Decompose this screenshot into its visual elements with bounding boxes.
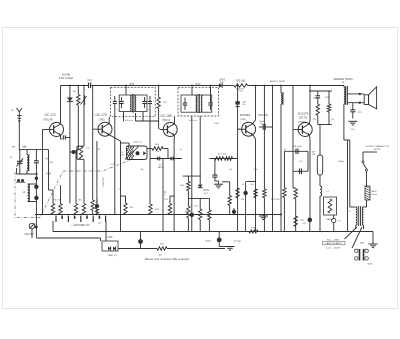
wire TR5 collector up bbox=[308, 86, 311, 124]
label near R26 val bbox=[331, 119, 334, 121]
svg-text:4·7kΩ: 4·7kΩ bbox=[237, 91, 243, 93]
label tag bbox=[360, 242, 365, 245]
svg-text:1k: 1k bbox=[242, 184, 244, 186]
oscillator coil L2 bbox=[28, 184, 30, 202]
diode D6 bbox=[171, 156, 174, 160]
label TR1 OC170 bbox=[45, 113, 56, 117]
wire v drop x78.3 upper bbox=[77, 86, 79, 95]
battery bracket right bbox=[105, 221, 107, 232]
resistor R19 on base line bbox=[236, 188, 239, 198]
label AGC rotated bbox=[103, 177, 105, 187]
svg-text:TAG: TAG bbox=[360, 242, 365, 245]
wire y171 bar bbox=[293, 170, 308, 172]
ground below C15 bbox=[214, 184, 223, 188]
wire x272.5 vertical bbox=[272, 86, 274, 232]
resistor R25 vertical bbox=[316, 91, 321, 115]
resistor R10 vertical bbox=[149, 204, 152, 215]
resistor R7 vertical bbox=[95, 206, 98, 215]
resistor R30 in loop bbox=[79, 146, 90, 159]
svg-text:6·8Ω: 6·8Ω bbox=[251, 228, 256, 230]
label R17 bbox=[218, 154, 227, 156]
svg-text:Case — BLUE: Case — BLUE bbox=[326, 247, 341, 249]
junction blob tuned bottom bbox=[35, 177, 38, 180]
resistor R14 vertical bbox=[187, 176, 190, 198]
capacitor C15 bbox=[212, 175, 217, 181]
wire jack top bbox=[366, 171, 368, 186]
pin diagram circles bbox=[355, 249, 369, 260]
ground below C23 bbox=[348, 121, 357, 125]
driver transformer core bbox=[359, 206, 361, 226]
label aerial coil top bbox=[23, 147, 27, 149]
wire drv bottoms bbox=[356, 225, 364, 229]
diode D5 bbox=[157, 156, 160, 160]
IFT2 primary winding bbox=[196, 96, 197, 113]
label near R27 bbox=[301, 220, 306, 222]
wire TR1 collector up bbox=[60, 86, 62, 124]
label R12 value bbox=[236, 80, 246, 83]
osc can windings bbox=[127, 147, 147, 160]
svg-text:10µF: 10µF bbox=[214, 123, 219, 125]
label IFT1 cap values bbox=[116, 110, 150, 112]
svg-text:OUTPUT TRANSISTOR: OUTPUT TRANSISTOR bbox=[365, 145, 389, 148]
wire x349.5 vertical bbox=[349, 140, 351, 207]
label near C8b bbox=[119, 189, 122, 191]
svg-text:5·6k: 5·6k bbox=[254, 169, 258, 171]
coil arcs beside R2 bbox=[81, 96, 87, 106]
pin diagram bars bbox=[360, 249, 364, 261]
resistor R22 vertical bbox=[263, 85, 266, 232]
capacitor C12 outside right bbox=[148, 96, 152, 109]
label R33 bbox=[241, 199, 244, 201]
label under IFT2 bbox=[189, 120, 197, 122]
wire x163 vertical bbox=[162, 159, 164, 232]
label near choke bottom bbox=[284, 149, 287, 151]
svg-text:(TR3) IF: (TR3) IF bbox=[162, 120, 171, 122]
wire y101 bar bbox=[309, 85, 332, 92]
svg-text:MW: MW bbox=[23, 147, 27, 149]
wire osc can top bbox=[121, 143, 130, 146]
junction dots on rail bbox=[237, 85, 282, 87]
capacitor C19 bbox=[300, 169, 302, 175]
lamp LP1 bbox=[332, 215, 336, 232]
svg-text:250µF: 250µF bbox=[205, 241, 212, 243]
resistor R3 vertical bbox=[51, 204, 54, 215]
svg-text:47k: 47k bbox=[241, 199, 244, 201]
wire detector feed bbox=[199, 116, 201, 185]
wire loop top bbox=[77, 145, 84, 147]
label TR5 2N1379 bbox=[298, 112, 309, 116]
label near 100uF bbox=[338, 161, 344, 163]
wire R8 to T3 base bbox=[158, 109, 160, 129]
svg-text:C9 (R6): C9 (R6) bbox=[62, 73, 71, 76]
wire x96.9 vertical bbox=[95, 141, 99, 215]
svg-text:6V wkg: 6V wkg bbox=[234, 241, 242, 243]
output transformer core bbox=[346, 86, 348, 105]
svg-text:2·2k: 2·2k bbox=[351, 129, 355, 131]
battery B1 cells bbox=[56, 216, 106, 223]
label IFT2 bbox=[195, 83, 201, 86]
capacitor C5 emitter bypass bbox=[63, 135, 70, 139]
wire x214.9 drop bbox=[214, 159, 216, 176]
wire link chain bbox=[118, 248, 157, 250]
wire TR1 emitter down bbox=[61, 135, 63, 139]
wire drv left top bbox=[350, 206, 356, 208]
wire TR2 emitter drop bbox=[120, 141, 122, 232]
resistor R26 vertical bbox=[327, 91, 330, 125]
svg-text:1k: 1k bbox=[179, 149, 181, 151]
wire TR2 base lead bbox=[93, 128, 95, 130]
wire TR2 emitter down bbox=[109, 135, 120, 141]
label R8 bbox=[164, 102, 168, 104]
diode D3 bbox=[108, 247, 111, 251]
label near capsule C21 bbox=[312, 152, 316, 157]
link box bbox=[102, 241, 118, 251]
wire v x78.3 lower bbox=[77, 105, 79, 150]
wire x320 down bbox=[319, 125, 321, 156]
pointer line 2 bbox=[352, 227, 362, 248]
IFT1 cap left bbox=[119, 97, 123, 108]
svg-text:82k: 82k bbox=[50, 162, 53, 164]
label tuned values bbox=[46, 159, 53, 176]
label left of C1 bbox=[10, 157, 13, 159]
label output transistor bbox=[365, 145, 389, 151]
svg-text:465 kc/s: 465 kc/s bbox=[189, 120, 197, 122]
transistor TR4 2N1381 bbox=[238, 122, 256, 136]
svg-text:5·6k: 5·6k bbox=[155, 151, 159, 153]
label R20 bbox=[160, 244, 165, 246]
wire y158 bar bbox=[209, 158, 238, 160]
diode D1 OA70 on rail bbox=[219, 83, 222, 88]
IF transformer IFT1 dashed box bbox=[111, 87, 156, 116]
wire battery top line bbox=[35, 214, 281, 216]
label case polarity bbox=[323, 241, 346, 245]
wire speaker bottom lead bbox=[347, 102, 364, 104]
resistor R4 vertical bbox=[59, 204, 62, 215]
coil L4 bbox=[320, 186, 322, 232]
label near 82k bbox=[50, 162, 53, 164]
wire x310 long vertical bbox=[309, 139, 311, 218]
wire x84 mid vertical bbox=[83, 159, 85, 203]
wire AGC line to TR2 base bbox=[92, 86, 94, 201]
resistor R5 vertical bbox=[74, 204, 77, 215]
label L2 text bbox=[23, 192, 26, 194]
electrolytic C21 body bbox=[317, 155, 322, 186]
label case blue bbox=[326, 247, 341, 249]
svg-text:2N1381: 2N1381 bbox=[240, 113, 251, 117]
wire gnd stub bbox=[215, 181, 219, 184]
junction dots left rail bbox=[69, 85, 85, 87]
IFT1 inner frame bbox=[119, 95, 147, 112]
transistor TR5 2N1379 bbox=[295, 123, 313, 137]
label TR4 OC75 bbox=[258, 113, 268, 117]
label C10 value bbox=[87, 80, 92, 85]
label near 1k mid bbox=[179, 149, 181, 151]
speaker LS1 bbox=[364, 87, 376, 109]
capacitor C14 electrolytic bbox=[190, 213, 194, 217]
IFT1 core bbox=[132, 94, 133, 113]
svg-text:4·7k: 4·7k bbox=[299, 161, 303, 163]
label near battery right bbox=[98, 223, 103, 225]
wire TR4 emitter down bbox=[253, 135, 256, 232]
wire IFT2 top feed bbox=[191, 86, 193, 96]
svg-text:MW: MW bbox=[12, 147, 16, 149]
wire top rail segment 4 bbox=[248, 85, 294, 87]
wire C12 drop bbox=[149, 109, 151, 204]
diode D2 AGC bbox=[67, 98, 73, 102]
resistor R32 AGC bottom bbox=[91, 200, 94, 215]
svg-text:A: A bbox=[12, 108, 14, 112]
wire IFT1 top feed bbox=[125, 86, 127, 96]
svg-text:100µF: 100µF bbox=[338, 161, 344, 163]
wire TR3 collector up bbox=[173, 116, 175, 124]
label near detector R15 bbox=[195, 206, 200, 208]
svg-text:↓ + BATTERY 9V: ↓ + BATTERY 9V bbox=[70, 224, 89, 227]
resistor R9 vertical bbox=[121, 196, 128, 215]
label near 5k6b bbox=[254, 169, 258, 171]
label near 0·01 bbox=[228, 169, 233, 171]
label near 4k7 right bbox=[299, 161, 303, 163]
svg-text:OA79: OA79 bbox=[203, 189, 210, 192]
resistor R13 horizontal bbox=[147, 147, 169, 151]
wire osc drop bbox=[167, 149, 169, 159]
wire osc coil stubs bbox=[28, 184, 37, 202]
label jack bbox=[371, 190, 378, 196]
label tuned block right bbox=[48, 174, 52, 176]
wire top rail segment 2 bbox=[91, 85, 220, 87]
svg-text:R17 10k: R17 10k bbox=[218, 154, 227, 156]
aerial symbol bbox=[17, 108, 22, 151]
svg-text:(D7): (D7) bbox=[204, 193, 208, 195]
label R21 grp bbox=[272, 199, 281, 201]
svg-text:0·01: 0·01 bbox=[87, 82, 92, 84]
label TR2 sub bbox=[99, 119, 105, 121]
wire choke down bbox=[280, 104, 282, 232]
label TR3 sub bbox=[162, 120, 171, 122]
wire battery to link bbox=[105, 232, 107, 242]
label x163 vertical text bbox=[165, 190, 167, 196]
label near 10uF bbox=[214, 123, 219, 125]
label osc values bbox=[155, 144, 163, 169]
resistor R31 vertical bbox=[187, 198, 190, 231]
driver transformer T3 winding R bbox=[362, 207, 363, 225]
wire top rail segment 3 bbox=[222, 85, 234, 87]
label under IFT1 bbox=[125, 120, 133, 122]
label near 2k2 bbox=[351, 129, 355, 131]
capacitor C23 across speaker bbox=[350, 103, 355, 119]
audio choke L3 bbox=[281, 86, 282, 105]
wire switch top bbox=[363, 152, 377, 158]
svg-text:(OC75): (OC75) bbox=[258, 113, 268, 117]
svg-text:OSC: OSC bbox=[120, 155, 125, 157]
driver transformer T3 winding L bbox=[356, 207, 357, 225]
svg-text:10k: 10k bbox=[250, 184, 253, 186]
wire x237.6 lower vertical bbox=[237, 129, 239, 231]
label R14 bbox=[180, 185, 185, 187]
wire R3 top stub bbox=[52, 190, 54, 204]
label IFT1 bbox=[129, 83, 135, 86]
capacitor C16 blob bbox=[235, 101, 239, 106]
capacitor C10 series on rail bbox=[89, 83, 91, 88]
IFT2 core bbox=[198, 94, 200, 113]
label TR5 OC72 bbox=[299, 117, 307, 120]
resistor R15 vertical bbox=[199, 198, 202, 231]
svg-text:OC 170: OC 170 bbox=[96, 113, 107, 117]
IFT1 primary winding bbox=[130, 96, 131, 112]
label TR4 2N1381 bbox=[240, 113, 251, 117]
wire TR2 collector up bbox=[108, 117, 110, 124]
volume potentiometer VR1 bbox=[29, 223, 38, 238]
wire osc return bbox=[36, 238, 100, 241]
svg-text:(TR4): (TR4) bbox=[240, 119, 246, 121]
label C24 bbox=[205, 241, 242, 243]
label TR1 sub bbox=[43, 120, 53, 122]
trimmer capacitor C2 bbox=[34, 150, 39, 174]
wire long vertical x191.8 bbox=[191, 116, 193, 232]
diode D4 bbox=[113, 247, 116, 251]
IFT2 inner frame bbox=[181, 95, 212, 112]
battery bracket left bbox=[52, 221, 54, 232]
resistor R20 horizontal bbox=[157, 247, 167, 251]
label R2 bbox=[73, 91, 77, 93]
label near coil L4 bbox=[327, 191, 330, 193]
wire y151 bar bbox=[284, 150, 308, 152]
resistor R23 vertical bbox=[283, 151, 286, 231]
label near R4b bbox=[97, 149, 100, 151]
capacitor C24 electrolytic bbox=[217, 232, 222, 247]
wire detector bottom bar bbox=[188, 197, 209, 199]
svg-text:(TR2): (TR2) bbox=[99, 119, 105, 121]
IF transformer IFT2 dashed box bbox=[178, 87, 219, 116]
label top extra row1 bbox=[62, 73, 71, 76]
svg-text:SM15: SM15 bbox=[367, 264, 373, 266]
label below rail R12 bbox=[236, 88, 244, 92]
wire loop left bbox=[76, 146, 78, 159]
IFT2 cap right bbox=[208, 98, 212, 111]
ground on lineA bbox=[259, 215, 268, 220]
wire x308 drop1 bbox=[307, 151, 309, 171]
resistor R28 horizontal bbox=[249, 228, 258, 234]
svg-text:OA81 (2): OA81 (2) bbox=[108, 254, 117, 257]
label near R7 bbox=[95, 202, 98, 204]
resistor R12 on rail bbox=[234, 84, 248, 88]
svg-text:R3 4·7k: R3 4·7k bbox=[53, 200, 62, 202]
wire drv right top bbox=[364, 200, 367, 207]
wire osc mid bbox=[150, 158, 182, 160]
wire TR1 base lead bbox=[43, 129, 46, 131]
capacitor C18 bbox=[296, 149, 298, 155]
svg-text:CASE POLARITY: CASE POLARITY bbox=[325, 242, 343, 245]
label near R19 R21 bbox=[242, 184, 254, 186]
label near 25k bbox=[140, 169, 143, 171]
svg-text:3Ω: 3Ω bbox=[342, 82, 345, 84]
wire transformer bottom drop bbox=[344, 104, 350, 140]
wire rail drop to driver bbox=[292, 86, 294, 189]
svg-text:JACK: JACK bbox=[371, 190, 377, 193]
label volume bbox=[24, 233, 34, 236]
switch S1 bbox=[362, 158, 368, 171]
wire rail stub to IFT2 cap bbox=[210, 86, 212, 98]
wire IFT1 bottom stub b bbox=[136, 113, 159, 121]
junction dots rail stubs bbox=[125, 85, 211, 87]
label near C22 bbox=[302, 223, 307, 225]
wire TR4 base lead bbox=[238, 128, 240, 130]
label near driver transformer bbox=[349, 211, 352, 213]
svg-text:OA70: OA70 bbox=[219, 79, 226, 82]
svg-text:AC128: AC128 bbox=[374, 148, 381, 151]
IFT2 cap left bbox=[183, 98, 187, 111]
wire x78.3 to cluster bbox=[76, 150, 78, 204]
label near x191 cap bbox=[185, 211, 189, 213]
resistor R11 vertical bbox=[168, 196, 174, 215]
wire detector top bar bbox=[183, 175, 201, 177]
ground tag bbox=[369, 232, 378, 248]
label battery bbox=[70, 224, 89, 227]
label output transformer bbox=[333, 78, 353, 84]
wire IFT1 bottom stub a bbox=[123, 112, 125, 122]
svg-text:2N1379: 2N1379 bbox=[298, 112, 309, 116]
label R25 R26 bbox=[313, 97, 330, 100]
label D1 OA70 bbox=[219, 79, 226, 85]
capacitor C22 electrolytic bbox=[308, 218, 313, 232]
label TR5 sub bbox=[298, 121, 306, 123]
label pin type bbox=[367, 264, 373, 266]
label C18 bbox=[292, 146, 302, 148]
svg-text:3·5mm: 3·5mm bbox=[371, 194, 378, 196]
wave switch contacts bbox=[16, 179, 25, 182]
resistor R17 horizontal bbox=[215, 157, 224, 161]
caption small top bbox=[158, 255, 162, 257]
svg-text:AUDIO CHOKE: AUDIO CHOKE bbox=[270, 80, 286, 83]
svg-text:(D1): (D1) bbox=[220, 82, 225, 84]
label C17 bbox=[259, 121, 265, 125]
diode D7 detector bbox=[198, 185, 203, 188]
svg-text:IFT1: IFT1 bbox=[129, 83, 135, 86]
wire top supply rail left segment bbox=[61, 85, 89, 87]
label near R13 values bbox=[155, 151, 159, 153]
svg-text:OA70: OA70 bbox=[157, 166, 163, 169]
wire R24 top bbox=[293, 187, 296, 190]
wire R8 top bbox=[158, 86, 160, 98]
label TR2 OC170 bbox=[96, 113, 107, 117]
pointer line 1 bbox=[345, 227, 358, 239]
resistor R27 vertical bbox=[294, 216, 298, 227]
resistor R21 emitter bbox=[254, 189, 282, 216]
IFT1 secondary winding bbox=[135, 96, 136, 112]
transistor TR3 OC169 bbox=[160, 123, 178, 137]
capacitor C25 electrolytic bbox=[243, 182, 255, 232]
resistor R16 vertical bbox=[208, 198, 211, 231]
svg-text:R12 1kΩ: R12 1kΩ bbox=[236, 80, 246, 83]
svg-text:R22 470: R22 470 bbox=[272, 199, 281, 201]
wire R4 top stub bbox=[60, 185, 62, 204]
wire osc junction down bbox=[35, 174, 37, 238]
label TR3 OC169 bbox=[161, 114, 172, 118]
choke core bbox=[282, 92, 284, 105]
ground below C24 bbox=[219, 247, 234, 251]
svg-text:(TR1) RF: (TR1) RF bbox=[43, 120, 53, 122]
label near osc can left bbox=[120, 152, 125, 157]
wire y124.5 bar bbox=[318, 115, 332, 124]
svg-text:25k: 25k bbox=[140, 169, 143, 171]
svg-text:(OC72): (OC72) bbox=[299, 117, 307, 120]
label near C8 bbox=[110, 164, 115, 166]
wire x347.5 vertical bbox=[347, 140, 349, 232]
label choke bbox=[270, 80, 286, 83]
wire IFT1 bottom stub c bbox=[142, 112, 144, 122]
resistor R2 vertical bbox=[77, 95, 80, 106]
wire v drop x69.9 upper bbox=[69, 86, 71, 99]
resistor R33 vertical bbox=[222, 182, 231, 215]
